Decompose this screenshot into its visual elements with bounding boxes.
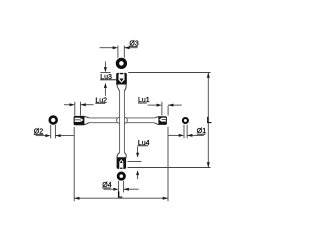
bottom ring	[118, 173, 124, 179]
left socket U2	[74, 116, 85, 125]
dimension L bottom arrow right	[163, 197, 168, 200]
dimension D4 line right	[123, 188, 138, 190]
right socket U3	[158, 116, 167, 125]
dimension Lu2 arrow left	[70, 103, 75, 106]
bottom socket wedge	[120, 160, 123, 163]
label D4 underline	[102, 187, 111, 189]
dimension Lu2 line right	[81, 104, 94, 106]
dimension D2 arrow left	[45, 134, 50, 137]
dimension Lu3 stem top	[104, 62, 106, 68]
left taper	[84, 116, 89, 124]
label Lu4 underline	[138, 145, 149, 147]
dimension D2 ext lines	[51, 125, 56, 138]
left ring	[50, 117, 57, 124]
left socket midline	[75, 119, 80, 122]
dimension Lu4 stem bottom	[137, 175, 139, 180]
dimension L bottom ext right	[167, 127, 169, 201]
dimension Lu1 arrow right	[168, 104, 173, 107]
top socket U1	[116, 73, 127, 85]
dimension Lu2 ext lines	[75, 102, 81, 116]
top ring	[117, 59, 125, 67]
dimension Lu3 stem bottom	[104, 87, 106, 95]
dimension D2 line right	[55, 135, 74, 137]
horizontal shaft lines	[89, 118, 154, 123]
dimension D2 arrow right	[55, 134, 60, 137]
dimension Lu1 ext lines	[162, 102, 168, 116]
dimension D3 line right	[124, 47, 137, 49]
dimension D3 arrow left	[113, 46, 118, 49]
dimension L bottom ext left	[73, 127, 75, 201]
dimension Lu4 arrow up	[136, 170, 139, 175]
label Lu3 underline	[100, 79, 116, 81]
dimension Lu2 arrow right	[81, 103, 86, 106]
dimension D3 arrow right	[124, 46, 129, 49]
dimension D1 ext lines	[184, 125, 187, 139]
dimension D4 arrow right	[124, 188, 129, 191]
left socket chevron	[80, 118, 83, 122]
horizontal shaft fill	[89, 118, 154, 123]
left socket cavity	[75, 118, 80, 122]
dimension D1 line right	[187, 134, 204, 136]
dimension Lu3 arrow up	[104, 83, 107, 88]
right socket midline	[161, 118, 166, 121]
dimension D4 line left	[104, 188, 114, 190]
label D2 underline	[34, 133, 44, 135]
dimension Lu4 arrow down	[136, 153, 139, 158]
dimension L right arrow up	[207, 73, 210, 78]
dimension L right ext top	[128, 72, 210, 74]
vertical shaft lines	[120, 91, 125, 154]
dimension Lu1 line left	[148, 104, 158, 106]
dimension Lu3 arrow down	[104, 67, 107, 72]
bottom socket cavity	[119, 159, 123, 168]
dimension Lu3 tick top	[100, 72, 110, 74]
joint bump right	[121, 117, 127, 123]
label D1 underline	[197, 133, 206, 135]
vertical shaft fill	[120, 91, 125, 154]
dimension D3 line left	[100, 47, 114, 49]
dimension L right line	[207, 73, 209, 168]
dimension D1 arrow left	[179, 134, 184, 137]
right taper	[154, 117, 159, 125]
right socket cavity	[161, 118, 166, 122]
dimension D1 arrow right	[187, 134, 192, 137]
label D3 underline	[129, 45, 137, 47]
right ring	[183, 118, 188, 123]
dimension D4 arrow left	[113, 188, 118, 191]
bottom socket slits	[118, 167, 121, 169]
svg-text:L: L	[118, 190, 123, 199]
dimension L right ext bottom	[128, 167, 211, 169]
bottom taper	[117, 153, 126, 158]
dimension Lu1 arrow left	[157, 104, 162, 107]
dimension Lu4 stem top	[137, 147, 139, 154]
dimension D2 line left	[36, 135, 46, 137]
top socket cavity	[119, 74, 125, 83]
right socket chevron	[159, 118, 161, 122]
dimension Lu4 tick top	[128, 161, 142, 163]
label Lu2 underline	[95, 102, 105, 104]
svg-text:L: L	[207, 116, 212, 125]
dimension Lu2 line left	[64, 104, 70, 106]
dimension L bottom arrow left	[74, 197, 79, 200]
top socket wedge	[119, 79, 123, 82]
dimension L bottom line	[74, 197, 168, 199]
top socket slits	[118, 73, 121, 75]
bottom socket U4	[117, 157, 127, 169]
dimension Lu1 line right	[168, 104, 182, 106]
dimension D1 line left	[168, 134, 179, 136]
dimension D3 ext lines	[118, 46, 124, 58]
top taper	[117, 84, 126, 91]
dimension L right arrow down	[207, 162, 210, 167]
joint bump left	[117, 117, 123, 123]
dimension D4 ext lines	[119, 181, 124, 193]
label Lu1 underline	[138, 102, 147, 104]
